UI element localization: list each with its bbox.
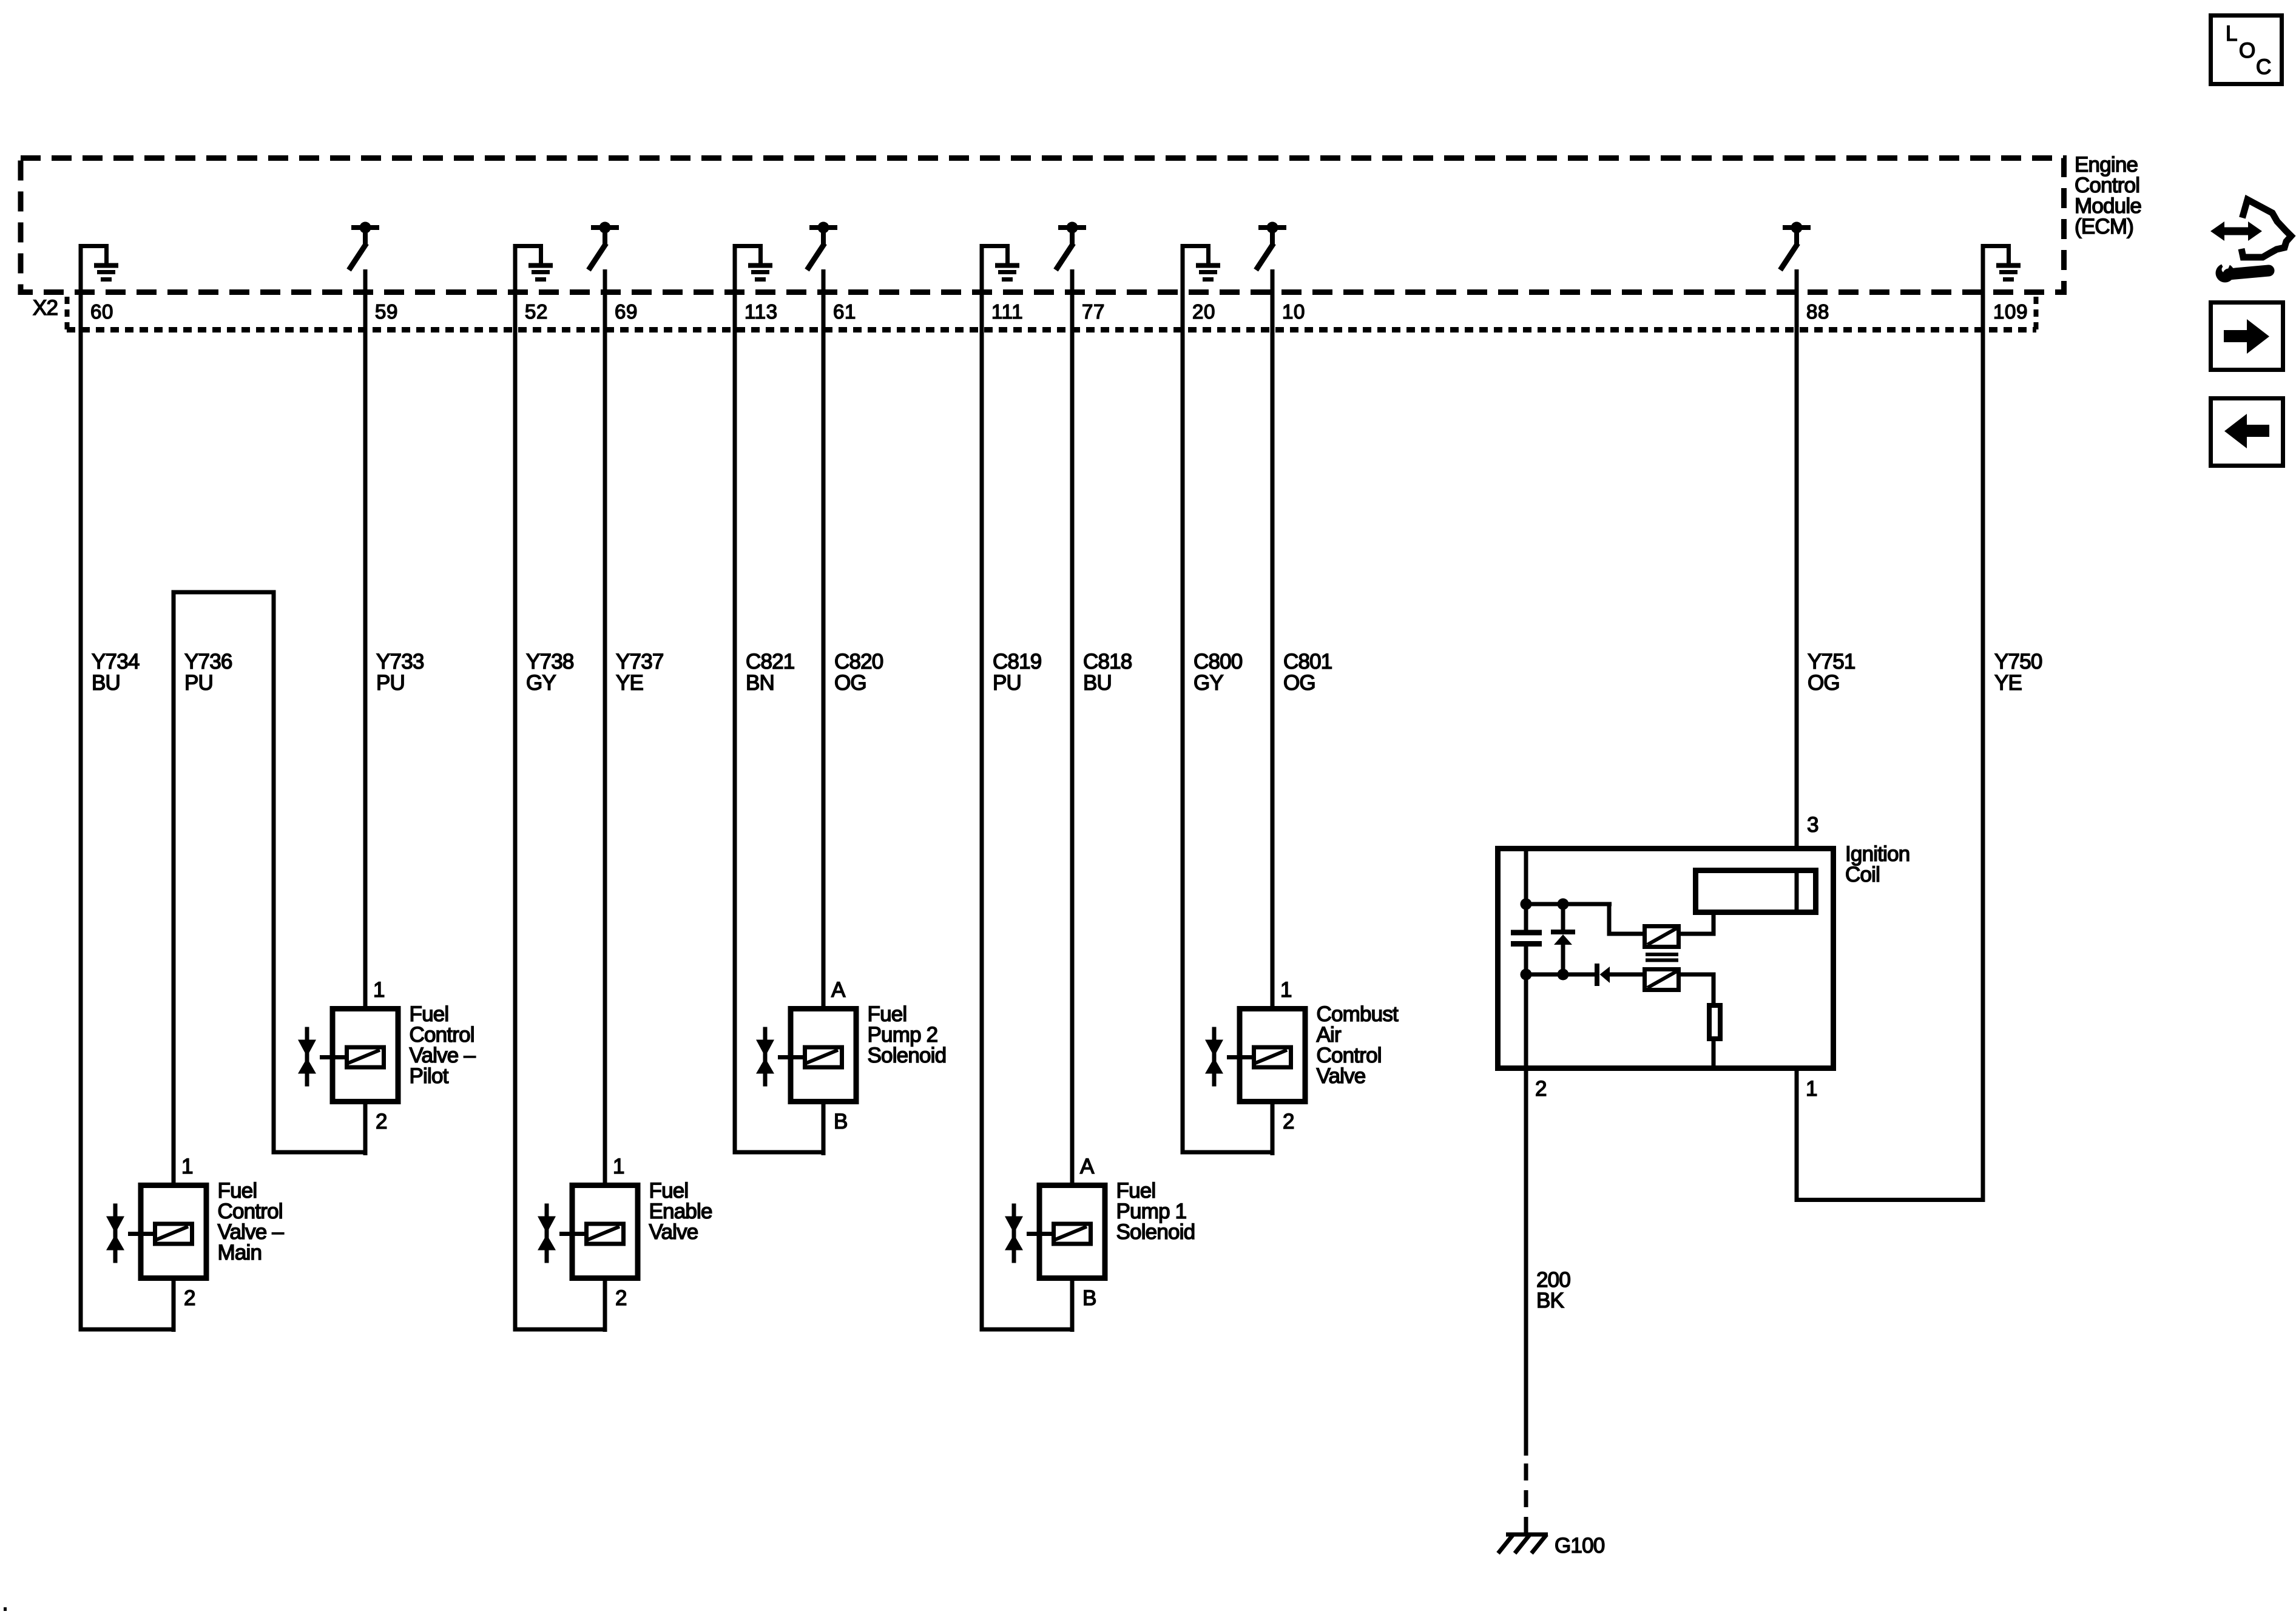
svg-text:Coil: Coil xyxy=(1845,863,1880,886)
svg-text:77: 77 xyxy=(1082,300,1105,323)
svg-text:Pilot: Pilot xyxy=(410,1064,449,1088)
svg-text:1: 1 xyxy=(613,1155,624,1178)
svg-text:Y736: Y736 xyxy=(184,650,232,673)
svg-text:61: 61 xyxy=(833,300,856,323)
svg-text:PU: PU xyxy=(184,671,213,695)
svg-text:Solenoid: Solenoid xyxy=(1116,1220,1195,1244)
svg-text:BU: BU xyxy=(1083,671,1112,695)
svg-text:L: L xyxy=(2226,22,2237,46)
svg-text:C819: C819 xyxy=(993,650,1041,673)
svg-text:10: 10 xyxy=(1282,300,1305,323)
svg-text:C821: C821 xyxy=(746,650,794,673)
svg-text:113: 113 xyxy=(745,300,778,323)
svg-text:B: B xyxy=(834,1110,848,1133)
svg-text:Valve: Valve xyxy=(1317,1064,1366,1088)
svg-text:Solenoid: Solenoid xyxy=(868,1044,947,1067)
svg-text:Y734: Y734 xyxy=(92,650,140,673)
svg-text:Main: Main xyxy=(218,1241,262,1264)
svg-text:Y751: Y751 xyxy=(1808,650,1855,673)
svg-text:OG: OG xyxy=(834,671,866,695)
svg-text:YE: YE xyxy=(616,671,643,695)
svg-text:C818: C818 xyxy=(1083,650,1132,673)
svg-text:B: B xyxy=(1082,1286,1096,1310)
svg-text:1: 1 xyxy=(181,1155,193,1178)
svg-text:Y738: Y738 xyxy=(526,650,574,673)
svg-text:GY: GY xyxy=(1194,671,1223,695)
svg-text:BN: BN xyxy=(746,671,774,695)
svg-text:OG: OG xyxy=(1808,671,1840,695)
svg-text:111: 111 xyxy=(991,300,1023,323)
svg-text:59: 59 xyxy=(375,300,398,323)
svg-text:C820: C820 xyxy=(834,650,883,673)
svg-text:G100: G100 xyxy=(1555,1534,1605,1558)
svg-text:52: 52 xyxy=(525,300,548,323)
svg-text:O: O xyxy=(2239,39,2255,62)
svg-text:PU: PU xyxy=(376,671,405,695)
svg-text:BU: BU xyxy=(92,671,120,695)
svg-text:1: 1 xyxy=(373,978,385,1002)
svg-text:2: 2 xyxy=(615,1286,627,1310)
svg-text:2: 2 xyxy=(184,1286,195,1310)
svg-text:(ECM): (ECM) xyxy=(2075,215,2133,238)
svg-text:Y750: Y750 xyxy=(1994,650,2042,673)
svg-text:A: A xyxy=(831,978,846,1002)
svg-text:X2: X2 xyxy=(33,296,58,320)
svg-text:Y733: Y733 xyxy=(376,650,424,673)
svg-text:69: 69 xyxy=(615,300,638,323)
svg-text:GY: GY xyxy=(526,671,556,695)
svg-text:1: 1 xyxy=(1280,978,1292,1002)
svg-text:BK: BK xyxy=(1536,1289,1564,1312)
svg-text:2: 2 xyxy=(376,1110,387,1133)
svg-text:1: 1 xyxy=(1806,1077,1817,1101)
svg-text:2: 2 xyxy=(1283,1110,1294,1133)
svg-text:60: 60 xyxy=(90,300,113,323)
svg-text:C801: C801 xyxy=(1283,650,1332,673)
svg-text:YE: YE xyxy=(1994,671,2022,695)
svg-text:C: C xyxy=(2256,55,2271,79)
svg-text:3: 3 xyxy=(1807,813,1818,837)
svg-text:88: 88 xyxy=(1806,300,1829,323)
svg-text:PU: PU xyxy=(993,671,1021,695)
svg-text:20: 20 xyxy=(1192,300,1215,323)
svg-text:109: 109 xyxy=(1993,300,2028,323)
svg-text:OG: OG xyxy=(1283,671,1315,695)
svg-text:Valve: Valve xyxy=(649,1220,698,1244)
svg-text:2: 2 xyxy=(1535,1077,1547,1101)
svg-text:A: A xyxy=(1080,1155,1095,1178)
svg-text:C800: C800 xyxy=(1194,650,1243,673)
svg-text:Y737: Y737 xyxy=(616,650,664,673)
